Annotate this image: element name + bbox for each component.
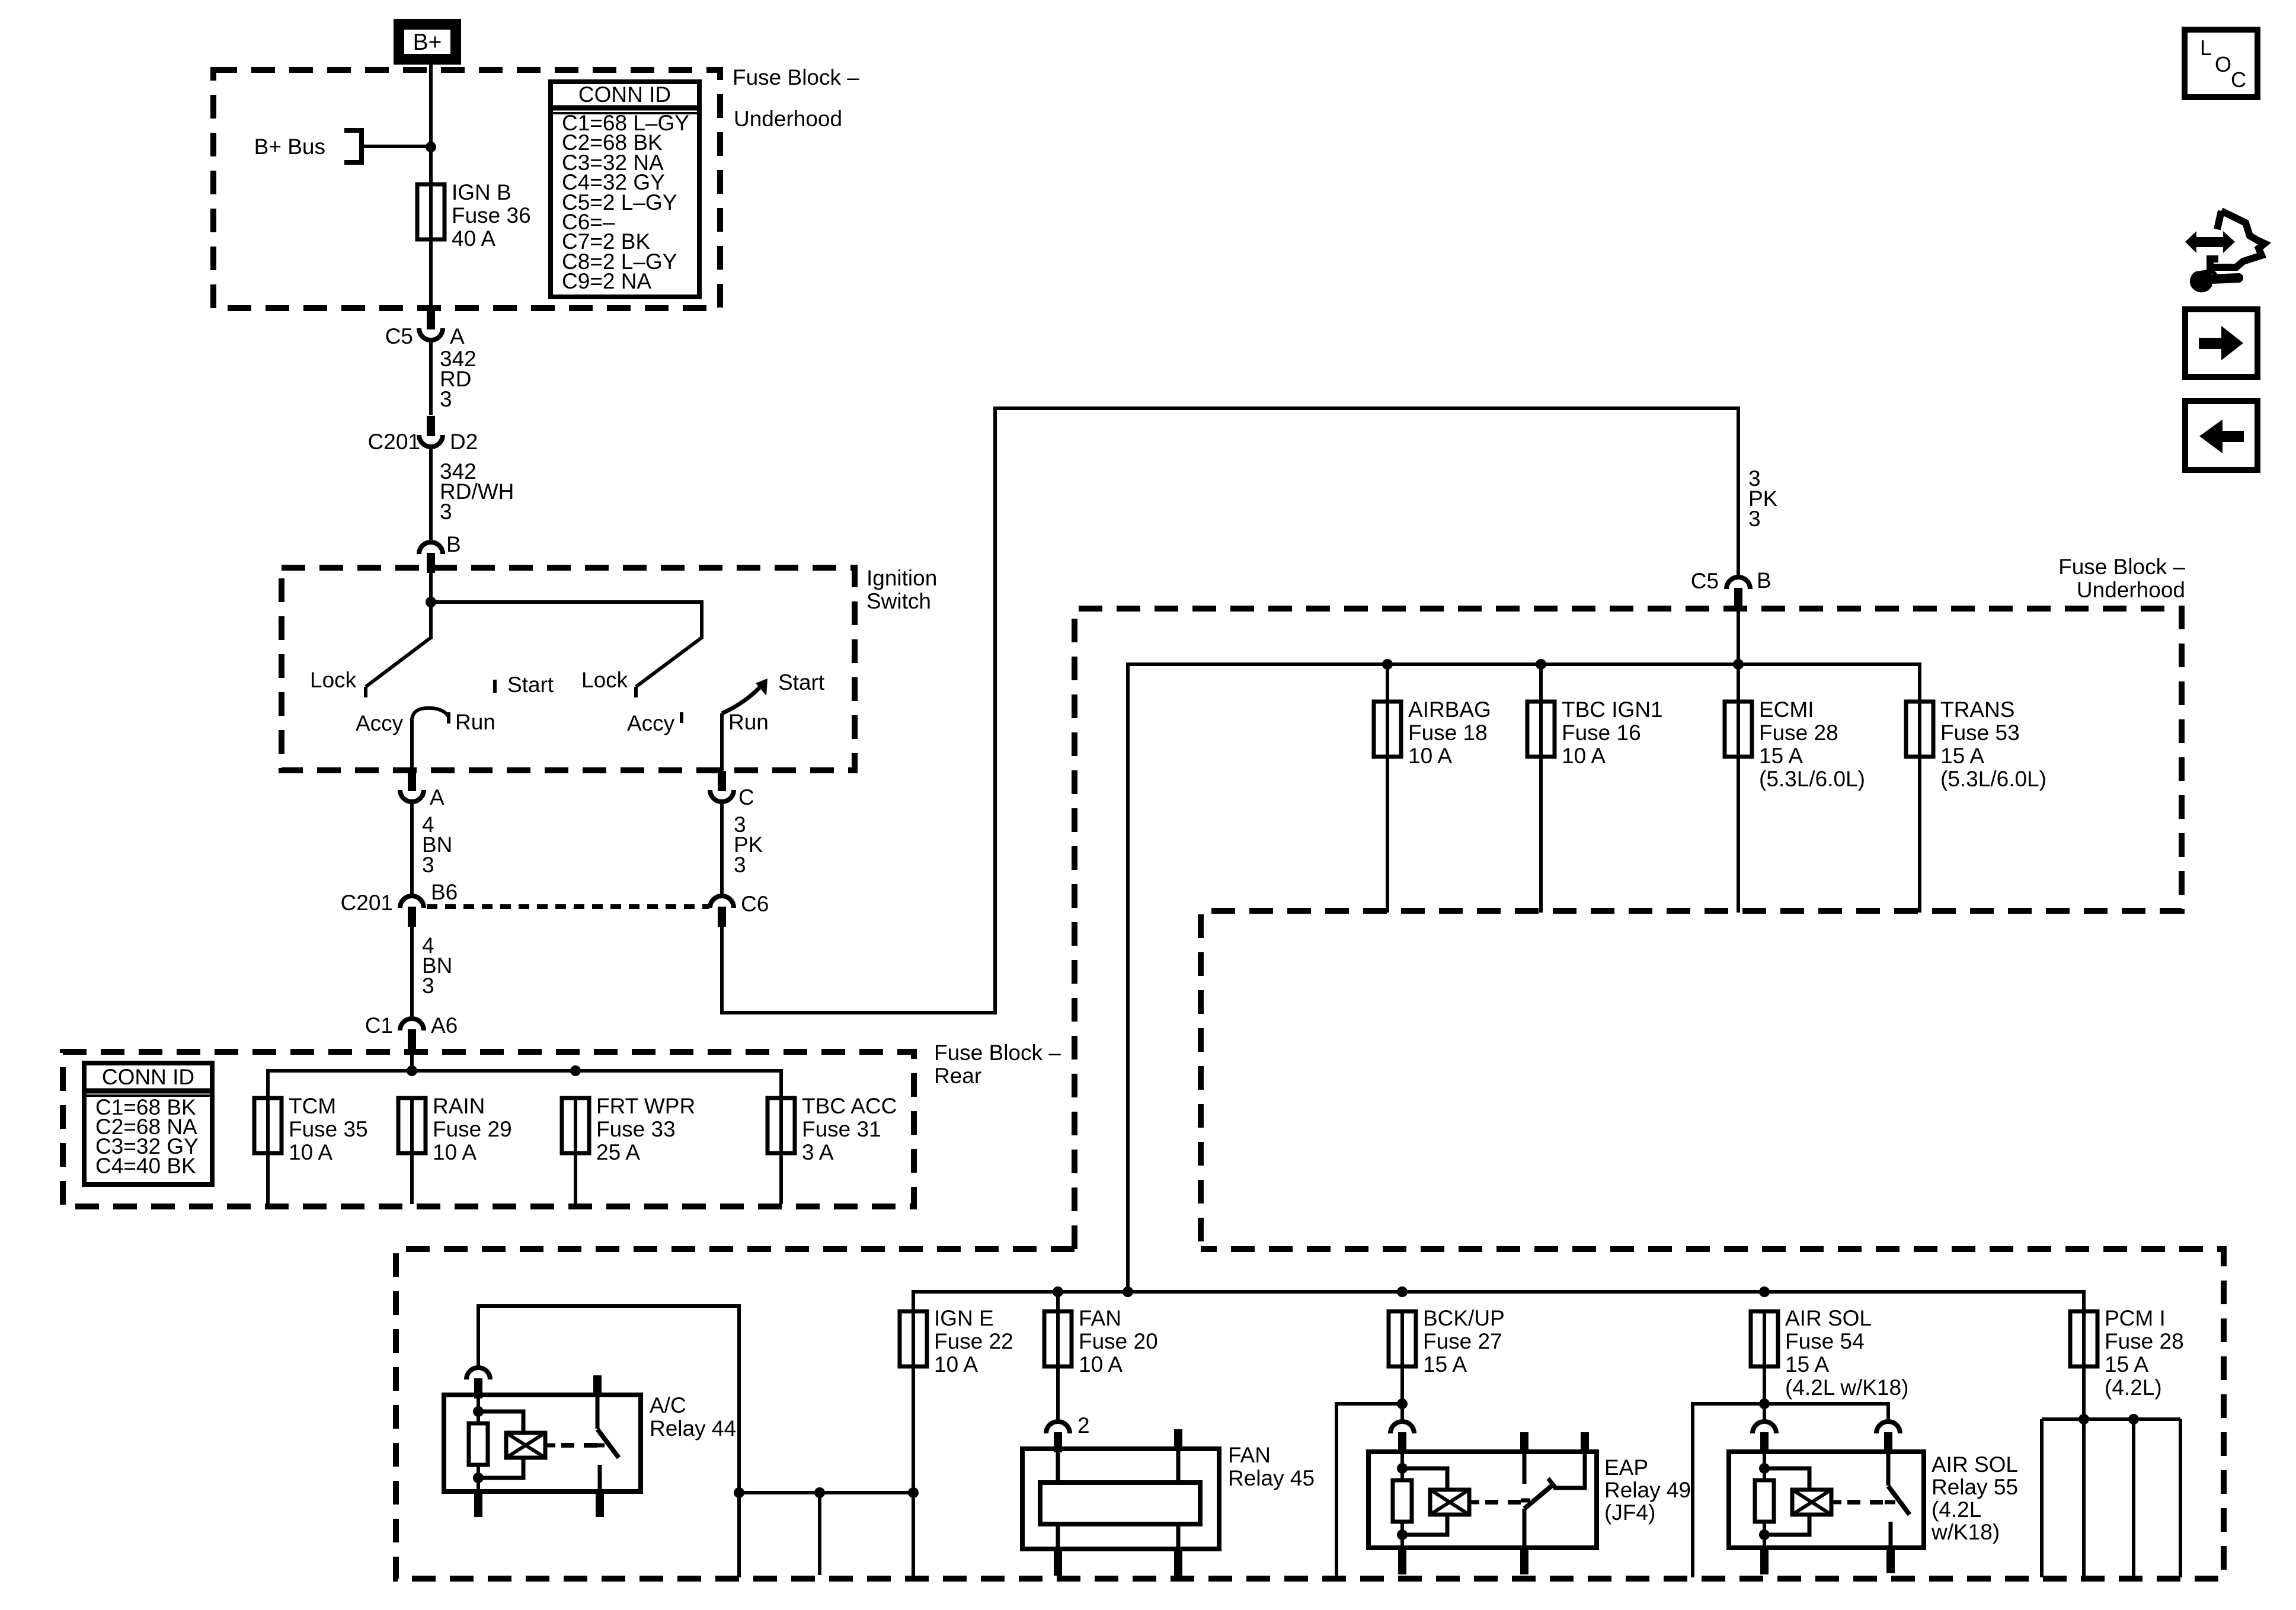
label Fuse Block - Underhood (left): [733, 65, 859, 131]
label 3 PK 3 (left): [734, 812, 763, 877]
svg-text:Run: Run: [728, 710, 769, 734]
wire IGN B fuse to connector C5-A: [429, 239, 433, 308]
fuse F28 PCM I 15A: [2070, 1311, 2097, 1366]
svg-text:10 A: 10 A: [433, 1140, 477, 1164]
svg-text:PCM I: PCM I: [2105, 1306, 2166, 1330]
A/C relay switch: [593, 1375, 619, 1517]
svg-text:15 A: 15 A: [1759, 744, 1803, 768]
FAN relay coil box: [1040, 1483, 1200, 1524]
svg-text:Fuse 29: Fuse 29: [433, 1117, 512, 1141]
node bus at C5-B: [1733, 659, 1744, 670]
svg-text:FAN: FAN: [1228, 1443, 1271, 1467]
svg-text:Start: Start: [778, 670, 825, 694]
svg-text:40 A: 40 A: [452, 226, 495, 251]
PCM pin wire 1: [2040, 1419, 2044, 1577]
label Lock (left): [310, 668, 357, 692]
power feed B+ terminal box: [399, 24, 456, 59]
node junction row left: [734, 1487, 744, 1498]
label PCM I Fuse 28 15 A: [2105, 1306, 2184, 1400]
label BCK/UP Fuse 27 15 A: [1423, 1306, 1505, 1377]
prev-page arrow box: [2185, 401, 2257, 470]
left Lock contact: [364, 687, 367, 697]
svg-text:w/K18): w/K18): [1931, 1520, 2000, 1544]
label 342 RD 3: [440, 347, 477, 411]
svg-text:IGN B: IGN B: [452, 180, 511, 204]
svg-text:(4.2L w/K18): (4.2L w/K18): [1785, 1375, 1908, 1400]
svg-text:Fuse 35: Fuse 35: [289, 1117, 368, 1141]
svg-text:C9=2 NA: C9=2 NA: [562, 269, 651, 293]
wire 3 PK 3 (left): [720, 803, 724, 896]
svg-text:C5: C5: [1691, 569, 1719, 593]
label IGN E Fuse 22 10 A: [934, 1306, 1013, 1377]
fuse F18 AIRBAG 10A: [1374, 664, 1401, 913]
wire 342 RD 3: [429, 341, 433, 415]
svg-text:10 A: 10 A: [1079, 1352, 1123, 1377]
connector C201 pin C6: [710, 892, 769, 927]
fuse F27 BCK/UP 15A: [1389, 1311, 1416, 1366]
fuse block rear dashed box: [63, 1052, 914, 1206]
wire BCK/UP branch left: [1336, 1404, 1402, 1577]
svg-text:AIR SOL: AIR SOL: [1785, 1306, 1872, 1330]
wire A/C relay feed: [478, 1306, 739, 1493]
right Lock contact: [634, 687, 638, 697]
node bus at TBC IGN1: [1536, 659, 1546, 670]
svg-text:B+: B+: [413, 30, 442, 55]
svg-text:Relay 55: Relay 55: [1932, 1475, 2018, 1499]
connector A (ignition Accy out): [400, 771, 445, 809]
svg-text:O: O: [2215, 52, 2231, 76]
svg-text:10 A: 10 A: [1408, 744, 1452, 768]
label Lock (right): [581, 668, 628, 692]
EAP relay coil bottom pin: [1398, 1548, 1406, 1574]
label Accy (right): [627, 711, 675, 735]
underhood ign bus: [1128, 664, 1920, 1292]
svg-text:Fuse Block –: Fuse Block –: [2058, 555, 2185, 579]
fuse F33 FRT WPR 25A: [562, 1098, 589, 1204]
wire 342 RD/WH 3: [429, 448, 433, 543]
vehicle/wrench icon: [2185, 211, 2265, 292]
svg-text:A6: A6: [431, 1013, 458, 1038]
wire BCK/UP fuse to junction: [1400, 1366, 1404, 1423]
node bus at BCK/UP fuse: [1397, 1286, 1408, 1297]
svg-text:C201: C201: [368, 430, 420, 454]
fuse F36 IGN B 40A: [417, 184, 445, 239]
svg-text:RAIN: RAIN: [433, 1094, 485, 1118]
connector C5 pin A: [385, 309, 465, 348]
node ignition switch junction: [426, 597, 436, 607]
wire PCM fuse down: [2082, 1366, 2086, 1419]
wire IGN E fuse down: [912, 1366, 915, 1577]
connector C201 pin B6: [341, 880, 458, 927]
wire left Accy output: [410, 719, 414, 772]
svg-text:BCK/UP: BCK/UP: [1423, 1306, 1505, 1330]
C201 connector dashed line: [427, 904, 709, 909]
fuse F53 TRANS 15A: [1906, 702, 1933, 913]
label FRT WPR Fuse 33 25 A: [596, 1094, 695, 1164]
svg-text:25 A: 25 A: [596, 1140, 640, 1164]
svg-text:Underhood: Underhood: [2077, 578, 2185, 602]
relay K44 A/C relay box: [444, 1395, 641, 1491]
svg-text:Fuse 28: Fuse 28: [1759, 721, 1838, 745]
AIR SOL relay coil bottom pin: [1760, 1548, 1769, 1574]
node bus at AIR SOL fuse: [1759, 1286, 1770, 1297]
node junction row mid: [814, 1487, 825, 1498]
FAN relay left pin: [1054, 1451, 1062, 1576]
next-page arrow box: [2185, 309, 2257, 377]
label FAN Relay 45: [1228, 1443, 1315, 1490]
svg-text:Run: Run: [455, 710, 495, 734]
svg-text:2: 2: [1077, 1413, 1090, 1438]
EAP relay switch: [1520, 1432, 1589, 1574]
svg-text:Underhood: Underhood: [734, 107, 842, 131]
CONN ID table (underhood): [551, 82, 699, 297]
B+ Bus tap bracket: [344, 128, 431, 165]
node below AIR SOL fuse: [1759, 1398, 1770, 1409]
svg-text:3: 3: [422, 974, 434, 998]
svg-text:Fuse 53: Fuse 53: [1940, 721, 2020, 745]
A/C relay coil bottom pin: [474, 1491, 482, 1517]
svg-text:B6: B6: [431, 880, 458, 904]
svg-text:B+ Bus: B+ Bus: [254, 135, 325, 159]
connector above A/C relay coil: [466, 1368, 490, 1398]
fuse F16 TBC IGN1 10A: [1527, 664, 1555, 913]
svg-text:TBC IGN1: TBC IGN1: [1562, 697, 1663, 722]
junction row wire: [739, 1491, 913, 1494]
svg-text:(4.2L: (4.2L: [1932, 1497, 1981, 1522]
EAP relay coil+resistor: [1393, 1452, 1524, 1548]
node rear bus at RAIN: [407, 1065, 417, 1076]
svg-text:Accy: Accy: [627, 711, 675, 735]
PCM pin wire 4: [2179, 1419, 2182, 1577]
svg-text:3: 3: [422, 853, 434, 877]
svg-text:10 A: 10 A: [1562, 744, 1606, 768]
svg-text:10 A: 10 A: [934, 1352, 978, 1377]
svg-text:FRT WPR: FRT WPR: [596, 1094, 695, 1118]
connector B (ignition switch input): [419, 532, 461, 573]
wire B+ to IGN B fuse: [429, 65, 433, 184]
label 342 RD/WH 3: [440, 459, 514, 524]
svg-text:ECMI: ECMI: [1759, 697, 1814, 722]
svg-text:(JF4): (JF4): [1604, 1500, 1655, 1525]
svg-text:TRANS: TRANS: [1940, 697, 2014, 722]
svg-text:Accy: Accy: [356, 711, 404, 735]
connector above EAP relay coil: [1390, 1422, 1414, 1452]
label Run (right): [728, 710, 769, 734]
wire 4 BN 3 (upper): [410, 803, 414, 896]
svg-text:15 A: 15 A: [1785, 1352, 1829, 1377]
label Start (right): [778, 670, 825, 694]
wire ignition feed to wiper junction: [429, 572, 433, 639]
svg-text:D2: D2: [450, 430, 478, 454]
node bus at AIRBAG: [1382, 659, 1393, 670]
svg-text:3: 3: [440, 387, 452, 411]
svg-text:10 A: 10 A: [289, 1140, 332, 1164]
svg-text:Fuse 28: Fuse 28: [2105, 1329, 2184, 1353]
svg-text:C: C: [738, 785, 754, 809]
svg-text:C: C: [2231, 68, 2246, 92]
svg-text:A/C: A/C: [650, 1393, 686, 1417]
label Fuse Block - Rear: [934, 1041, 1061, 1088]
svg-text:Ignition: Ignition: [866, 566, 937, 590]
node bus at FAN fuse: [1053, 1286, 1063, 1297]
wire C5-B into fuse block: [1737, 608, 1740, 664]
node bus at feed drop: [1123, 1286, 1133, 1297]
connector C201 pin D2: [368, 416, 478, 454]
svg-text:Fuse 31: Fuse 31: [802, 1117, 881, 1141]
fuse F35 TCM 10A: [254, 1098, 282, 1204]
FAN relay right pin: [1174, 1429, 1182, 1576]
label Start (left): [507, 673, 554, 697]
svg-text:EAP: EAP: [1604, 1455, 1648, 1480]
svg-text:Fuse 22: Fuse 22: [934, 1329, 1013, 1353]
label Run (left): [455, 710, 495, 734]
svg-text:(5.3L/6.0L): (5.3L/6.0L): [1759, 767, 1865, 791]
svg-text:IGN E: IGN E: [934, 1306, 994, 1330]
left Start contact: [493, 680, 497, 693]
label TRANS Fuse 53 15 A: [1940, 697, 2046, 791]
svg-text:B: B: [446, 532, 461, 556]
connector C5 pin B: [1691, 568, 1771, 608]
svg-text:CONN ID: CONN ID: [578, 82, 671, 107]
node PCM bar 2: [2128, 1414, 2139, 1425]
svg-text:Start: Start: [507, 673, 554, 697]
label AIRBAG Fuse 18 10 A: [1408, 697, 1491, 768]
left switch wiper to Lock: [366, 638, 431, 687]
right switch wiper to Lock: [636, 638, 702, 687]
svg-text:Fuse 36: Fuse 36: [452, 203, 531, 228]
label AIR SOL Fuse 54 15 A: [1785, 1306, 1908, 1400]
svg-text:Fuse 27: Fuse 27: [1423, 1329, 1502, 1353]
label B+ Bus: [254, 135, 325, 159]
relay K45 FAN relay box: [1022, 1449, 1219, 1549]
LOC reference box: [2185, 30, 2257, 97]
svg-text:C4=40 BK: C4=40 BK: [95, 1154, 196, 1178]
label TCM Fuse 35 10 A: [289, 1094, 368, 1164]
PCM pin wire 3: [2132, 1419, 2135, 1577]
connector above AIR SOL relay coil: [1753, 1422, 1776, 1452]
wire C6 to underhood fuse block (3 PK 3 run): [722, 408, 1738, 1013]
connector above AIR SOL relay switch: [1876, 1422, 1900, 1452]
svg-text:L: L: [2200, 36, 2212, 60]
svg-text:CONN ID: CONN ID: [102, 1065, 194, 1089]
bottom ignition bus: [913, 1292, 2084, 1311]
svg-text:(4.2L): (4.2L): [2105, 1375, 2162, 1400]
fuse F29 RAIN 10A: [398, 1098, 426, 1204]
AIR SOL relay switch: [1884, 1432, 1910, 1573]
fuse F31 TBC ACC 3A: [768, 1098, 795, 1204]
svg-text:3: 3: [734, 853, 746, 877]
ignition switch dashed box: [282, 568, 855, 770]
A/C relay coil+resistor: [469, 1395, 600, 1491]
wire AIR SOL fuse to junction: [1763, 1366, 1766, 1423]
wire right Run output: [720, 713, 724, 772]
svg-text:AIR SOL: AIR SOL: [1932, 1452, 2018, 1477]
right Accy contact: [680, 712, 683, 723]
svg-text:C6: C6: [741, 892, 769, 916]
svg-text:Fuse Block –: Fuse Block –: [733, 65, 859, 89]
wire junction to right switch: [431, 602, 702, 639]
svg-text:B: B: [1757, 568, 1771, 593]
svg-text:Lock: Lock: [310, 668, 357, 692]
connector C (ignition Run out): [710, 771, 754, 809]
bottom relay/fuse dashed box: [396, 1249, 2224, 1579]
svg-text:Fuse Block –: Fuse Block –: [934, 1041, 1061, 1065]
relay K49 EAP relay box: [1368, 1452, 1597, 1548]
label ECMI Fuse 28 15 A: [1759, 697, 1865, 791]
svg-text:3: 3: [440, 500, 452, 524]
svg-text:A: A: [450, 324, 465, 348]
right Run-Start arrow: [722, 678, 768, 713]
relay K55 AIR SOL relay box: [1729, 1452, 1924, 1548]
svg-text:3 A: 3 A: [802, 1140, 834, 1164]
svg-text:Relay 49: Relay 49: [1604, 1478, 1691, 1502]
fuse F54 AIR SOL 15A: [1751, 1311, 1778, 1366]
wire 4 BN 3 (lower): [410, 926, 414, 1019]
PCM pin wire 2: [2082, 1419, 2086, 1577]
wire junction row mid drop: [818, 1493, 821, 1575]
svg-text:15 A: 15 A: [2105, 1352, 2148, 1377]
fuse F28 ECMI 15A: [1725, 664, 1752, 913]
label 3 PK 3 (right): [1748, 466, 1778, 531]
svg-text:(5.3L/6.0L): (5.3L/6.0L): [1940, 767, 2046, 791]
svg-text:Rear: Rear: [934, 1064, 981, 1088]
CONN ID table (rear): [84, 1063, 212, 1185]
label EAP Relay 49 (JF4): [1604, 1455, 1691, 1525]
label 4 BN 3 (upper): [422, 812, 452, 877]
fuse block underhood (right) dashed outline: [1075, 609, 2182, 1249]
svg-text:15 A: 15 A: [1423, 1352, 1467, 1377]
node B+ bus junction: [426, 142, 436, 152]
label AIR SOL Relay 55: [1931, 1452, 2018, 1544]
label TBC IGN1 Fuse 16 10 A: [1562, 697, 1663, 768]
svg-text:C201: C201: [341, 891, 393, 915]
svg-text:AIRBAG: AIRBAG: [1408, 697, 1491, 722]
svg-text:Fuse 20: Fuse 20: [1079, 1329, 1158, 1353]
wire AIR SOL branch right: [1764, 1404, 1888, 1423]
wire junction row left drop: [737, 1493, 741, 1577]
node rear bus at FRT WPR: [570, 1065, 581, 1076]
wire FAN fuse to relay: [1056, 1366, 1060, 1423]
svg-text:15 A: 15 A: [1940, 744, 1984, 768]
fuse F20 FAN 10A: [1044, 1292, 1072, 1366]
node below BCK/UP fuse: [1397, 1398, 1408, 1409]
node junction row at IGN E: [908, 1487, 919, 1498]
label RAIN Fuse 29 10 A: [433, 1094, 512, 1164]
svg-text:Relay 45: Relay 45: [1228, 1466, 1315, 1490]
label Ignition Switch: [866, 566, 937, 613]
svg-text:Lock: Lock: [581, 668, 628, 692]
label IGN B Fuse 36 40 A: [452, 180, 531, 251]
svg-text:TBC ACC: TBC ACC: [802, 1094, 897, 1118]
left Accy-Run arc: [412, 708, 448, 719]
wire AIR SOL branch left: [1693, 1404, 1764, 1577]
svg-text:Relay 44: Relay 44: [650, 1416, 736, 1441]
svg-text:Fuse 33: Fuse 33: [596, 1117, 676, 1141]
node PCM bar 1: [2078, 1414, 2089, 1425]
PCM connector bar: [2042, 1417, 2180, 1421]
svg-text:3: 3: [1748, 507, 1761, 531]
svg-text:Fuse 18: Fuse 18: [1408, 721, 1488, 745]
label Accy (left): [356, 711, 404, 735]
svg-text:Fuse 16: Fuse 16: [1562, 721, 1641, 745]
svg-text:Switch: Switch: [866, 589, 931, 613]
rear fuse bus: [268, 1071, 781, 1098]
label A/C Relay 44: [650, 1393, 736, 1441]
wire C1-A6 into rear fuse block: [410, 1048, 414, 1071]
AIR SOL relay coil+resistor: [1755, 1452, 1886, 1548]
left Run contact: [447, 712, 450, 724]
connector C1 pin A6: [365, 1013, 458, 1049]
svg-text:C1: C1: [365, 1013, 393, 1038]
svg-text:FAN: FAN: [1079, 1306, 1121, 1330]
connector 2 above FAN relay: [1046, 1413, 1090, 1452]
svg-text:Fuse 54: Fuse 54: [1785, 1329, 1865, 1353]
svg-text:C5: C5: [385, 324, 413, 348]
fuse block underhood (left) dashed box: [213, 70, 720, 308]
label FAN Fuse 20 10 A: [1079, 1306, 1158, 1377]
label 4 BN 3 (lower): [422, 933, 452, 998]
label TBC ACC Fuse 31 3 A: [802, 1094, 897, 1164]
fuse F22 IGN E 10A: [900, 1311, 927, 1366]
svg-text:A: A: [430, 785, 445, 809]
svg-text:TCM: TCM: [289, 1094, 336, 1118]
label Fuse Block - Underhood (right): [2058, 555, 2185, 602]
